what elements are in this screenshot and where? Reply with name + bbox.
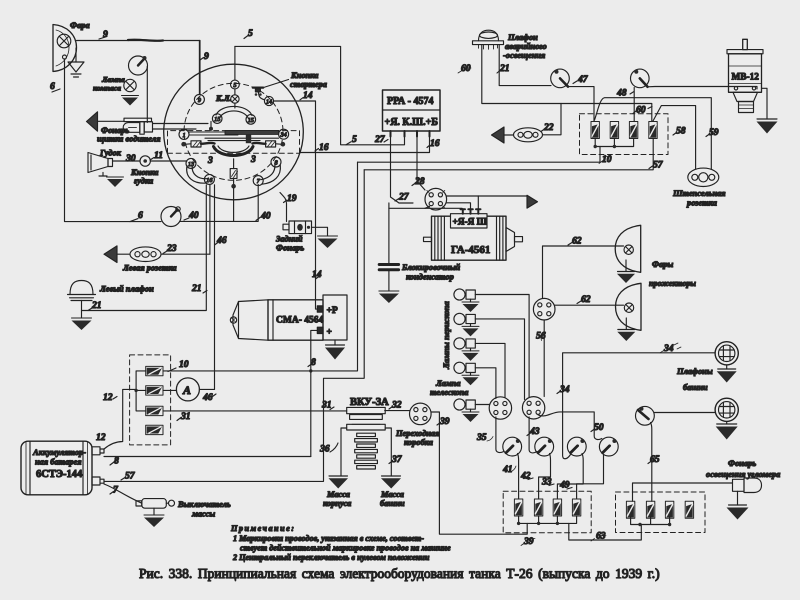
svg-text:9: 9 <box>198 97 201 104</box>
fuse box left (dashed) <box>130 355 171 445</box>
svg-text:Рис. 338. Принципиальная схема: Рис. 338. Принципиальная схема электрооб… <box>139 566 660 581</box>
svg-text:15: 15 <box>248 117 254 124</box>
lower-right arc segment <box>261 165 281 185</box>
compass lamp <box>124 79 136 91</box>
emergency dome lamp (Плафон аварийного освещения) <box>473 30 547 60</box>
svg-text:16: 16 <box>319 142 329 153</box>
socket 22 with arrow <box>492 104 562 144</box>
svg-text:12: 12 <box>96 432 106 443</box>
wire 57 battery minus <box>104 170 364 482</box>
svg-text:1 Маркировка проводов, указанн: 1 Маркировка проводов, указанная в схеме… <box>233 534 424 543</box>
svg-text:Переходная: Переходная <box>395 429 440 438</box>
central resistor and terminal <box>230 159 237 222</box>
svg-text:коробка: коробка <box>404 438 433 447</box>
left bus of fuse box <box>136 371 146 411</box>
svg-text:43: 43 <box>529 426 540 437</box>
wire 28 from RRA to connector top <box>412 137 425 191</box>
wire 63 box1 to box2 <box>569 523 642 541</box>
wire 35: connector A to toggle 1 <box>476 417 504 453</box>
ground of rear lamp <box>312 227 338 248</box>
svg-text:48: 48 <box>616 88 627 99</box>
plug socket (Штепсельная розетка) <box>672 168 726 207</box>
svg-text:46: 46 <box>202 392 213 403</box>
wire 21 from dome to toggle 47 <box>497 45 551 86</box>
wire 9 <box>77 29 210 94</box>
ground below dome 2 <box>716 422 738 440</box>
horn button (Кнопка гудка) <box>130 156 158 186</box>
central moving contact arc <box>214 146 254 156</box>
left socket (Левая розетка) <box>104 243 210 273</box>
long bus: fuse1-left to vertical riser <box>163 162 358 372</box>
wire from compass to driver panel lamp line <box>146 67 148 123</box>
svg-text:5: 5 <box>233 82 236 89</box>
svg-text:Гудок: Гудок <box>99 149 122 158</box>
svg-text:6СТЭ-144: 6СТЭ-144 <box>36 469 83 480</box>
wire 8 battery to starter <box>104 456 311 467</box>
svg-text:6: 6 <box>50 81 55 92</box>
svg-text:32: 32 <box>391 400 402 411</box>
svg-text:башни: башни <box>380 499 405 508</box>
fuse 4 <box>649 122 657 139</box>
svg-text:Штепсельная: Штепсельная <box>672 189 726 198</box>
fuse L2 <box>146 386 163 395</box>
lamp connector A <box>489 397 511 419</box>
right contact assembly <box>253 141 286 147</box>
svg-text:5: 5 <box>352 134 357 145</box>
svg-text:15: 15 <box>214 116 220 123</box>
svg-text:ГА-4561: ГА-4561 <box>451 244 490 256</box>
starter motor SMA-4564 <box>230 295 347 340</box>
svg-text:28: 28 <box>414 176 425 187</box>
switch bars <box>189 122 279 144</box>
svg-text:СМА- 4564: СМА- 4564 <box>276 316 323 326</box>
svg-text:стартера: стартера <box>290 80 327 89</box>
toggle switch 49 (T4) <box>559 437 618 499</box>
wire 32 VKU to junction box <box>385 400 410 411</box>
svg-text:+Я-Я Ш: +Я-Я Ш <box>453 218 488 228</box>
svg-text:37: 37 <box>391 454 403 465</box>
wire 36 to hull ground <box>319 428 347 476</box>
fuse L4 <box>146 425 163 434</box>
compass gauge (Лампа компаса) <box>93 56 148 93</box>
svg-text:аварийного: аварийного <box>505 42 547 51</box>
svg-text:21: 21 <box>191 283 202 294</box>
turret dome 1 (Плафоны башни) <box>676 342 738 392</box>
ground of starter <box>325 340 345 360</box>
svg-text:ная батарея: ная батарея <box>35 458 82 467</box>
svg-text:5: 5 <box>248 28 253 39</box>
svg-text:К.Л.: К.Л. <box>215 94 232 103</box>
junction box (Переходная коробка) <box>395 403 440 447</box>
svg-text:21: 21 <box>499 63 510 74</box>
fuse box top-right (dashed) <box>580 114 669 155</box>
svg-text:23: 23 <box>166 243 177 254</box>
wire to goniometer lamp <box>633 483 733 501</box>
svg-text:прожекторы: прожекторы <box>649 279 696 288</box>
terminal 8 <box>271 157 281 167</box>
hull ground (Масса корпуса) <box>323 476 351 508</box>
svg-text:Масса: Масса <box>326 490 350 499</box>
svg-text:46: 46 <box>216 235 227 246</box>
fuse B1-3 <box>553 499 561 516</box>
wire 58 from fuse 4 to socket <box>653 106 696 169</box>
svg-text:Выключатель: Выключатель <box>177 500 231 509</box>
wire from terminal 16 down <box>209 184 211 254</box>
ground below compass lamp <box>122 96 139 106</box>
svg-text:34: 34 <box>559 384 570 395</box>
svg-text:39: 39 <box>439 416 450 427</box>
svg-text:41: 41 <box>502 464 513 475</box>
terminal 13 <box>186 158 196 168</box>
svg-text:16: 16 <box>206 177 213 184</box>
lower-left arc segment <box>187 166 207 183</box>
telescope lamp (Лампа телескопа) <box>430 379 490 422</box>
wire 8 label near starter <box>308 357 316 368</box>
svg-text:22: 22 <box>543 122 554 133</box>
blocking capacitor (Блокировочный конденсатор) <box>379 203 461 303</box>
svg-text:35: 35 <box>476 432 487 443</box>
svg-text:2 Центральный переключатель в: 2 Центральный переключатель в нулевом по… <box>232 553 430 562</box>
svg-text:Фары: Фары <box>652 260 673 269</box>
svg-text:8: 8 <box>114 456 119 467</box>
wire 12 battery to fusebox <box>96 389 136 449</box>
svg-text:6: 6 <box>138 210 143 221</box>
left contact assembly <box>181 141 214 147</box>
svg-text:телескопа: телескопа <box>430 388 469 397</box>
terminal 15 right <box>246 115 256 125</box>
ground below goniometer lamp <box>727 491 749 519</box>
wires from panel lamp to ring <box>153 124 209 130</box>
terminal 16 <box>204 174 214 184</box>
driver panel lamp (Фонарь щитка водителя) <box>97 118 161 143</box>
wire 62 lower searchlight <box>555 294 624 305</box>
svg-text:башни: башни <box>683 383 708 392</box>
wires connector to generator and arrow <box>446 196 527 209</box>
wire 27 from RRA to generator connector <box>374 134 413 203</box>
svg-text:ВКУ-ЗА: ВКУ-ЗА <box>350 397 389 408</box>
fuse B1-2 <box>534 499 542 516</box>
generator GA-4561 <box>424 209 523 260</box>
svg-text:40: 40 <box>260 211 271 222</box>
svg-text:Примечание:: Примечание: <box>230 524 296 533</box>
svg-text:47: 47 <box>577 74 589 85</box>
lamp connector B <box>522 397 544 419</box>
svg-text:3: 3 <box>250 154 256 165</box>
wire 7 to ground switch <box>104 484 142 503</box>
svg-text:34: 34 <box>280 132 287 139</box>
ground below searchlight 1 <box>617 260 635 283</box>
svg-text:21: 21 <box>91 300 102 311</box>
wire 47 to fuse 1 <box>568 87 594 122</box>
fuse B2-1 <box>626 501 634 518</box>
svg-text:19: 19 <box>287 193 297 204</box>
svg-text:щитка водителя: щитка водителя <box>97 135 161 144</box>
gauge 40 <box>161 185 271 227</box>
svg-text:33: 33 <box>541 477 552 488</box>
svg-text:13: 13 <box>188 161 194 168</box>
ground below switch <box>144 508 164 527</box>
svg-text:57: 57 <box>125 471 136 482</box>
svg-text:10: 10 <box>179 359 189 370</box>
fuse 3 <box>629 122 637 139</box>
periscope lamp 1 <box>454 289 529 398</box>
svg-text:65: 65 <box>650 454 660 465</box>
fuse L1 <box>146 366 163 375</box>
svg-text:3: 3 <box>207 155 213 166</box>
wire 14 to starter relay <box>274 90 323 309</box>
svg-text:57: 57 <box>653 160 664 171</box>
svg-text:Левая розетка: Левая розетка <box>122 264 177 273</box>
svg-text:Фонарь: Фонарь <box>276 244 304 253</box>
electric motor MV-12 <box>727 39 763 112</box>
relay-regulator RRA-4574 <box>383 90 441 137</box>
svg-text:8: 8 <box>311 357 316 368</box>
arrow right <box>527 195 538 208</box>
svg-text:60: 60 <box>461 63 471 74</box>
wire 59 line from fuse1 to socket <box>595 98 719 169</box>
bus of box 1 <box>517 516 577 525</box>
arrow to driver panel lamp <box>87 112 125 131</box>
bus of box 2 <box>631 517 672 527</box>
starter button (Кнопка стартера) <box>253 71 327 100</box>
svg-text:+: + <box>327 328 332 338</box>
svg-text:10: 10 <box>602 154 612 165</box>
left dome lamp (Левый плафон) <box>68 281 155 311</box>
fuse B2-2 <box>646 501 654 518</box>
periscope lamp 2 <box>454 313 525 399</box>
svg-text:11: 11 <box>154 150 163 161</box>
svg-text:гудка: гудка <box>134 177 153 186</box>
svg-text:40: 40 <box>188 210 199 221</box>
horn (Гудок) <box>88 149 122 177</box>
svg-text:Плафон: Плафон <box>507 33 538 42</box>
wire connector bottom to capacitor <box>389 208 462 209</box>
svg-text:30: 30 <box>125 153 136 164</box>
svg-text:конденсатор: конденсатор <box>406 273 454 282</box>
wire 31 fuse L3 to VKU <box>163 400 347 423</box>
wire 16 from ring to RRA <box>300 137 440 154</box>
svg-text:50: 50 <box>594 422 604 433</box>
wire 46 vertical <box>215 185 227 390</box>
ground below dome 1 <box>717 365 737 383</box>
ground below left dome <box>72 311 92 331</box>
svg-text:27: 27 <box>398 192 410 203</box>
searchlight 2 <box>616 260 697 330</box>
periscope lamp 3 <box>454 338 505 398</box>
toggle switch 47 <box>551 69 589 88</box>
svg-text:освещения угломера: освещения угломера <box>706 470 780 479</box>
terminal 15 left <box>212 114 222 124</box>
wire 37 to turret ground <box>385 428 403 476</box>
toggle switch 33 (T3) <box>541 437 586 499</box>
svg-text:+Я. К.Ш.+Б: +Я. К.Ш.+Б <box>385 117 439 128</box>
headlight (Фара) <box>53 21 90 72</box>
toggle switch 48 <box>616 69 649 98</box>
svg-text:Задний: Задний <box>275 235 303 244</box>
svg-text:34: 34 <box>663 343 674 354</box>
svg-text:1: 1 <box>182 132 185 139</box>
svg-text:массы: массы <box>191 510 215 519</box>
wire 43: connector B to toggle 2 <box>527 417 540 453</box>
label 60 near fuse 4 <box>633 105 652 116</box>
fuse 1 <box>591 122 599 139</box>
wire 19 to rear lamp <box>280 193 297 222</box>
wire 6 (left frame) <box>50 59 161 222</box>
svg-text:63: 63 <box>596 531 606 542</box>
terminal 1 <box>179 129 189 139</box>
wire 5 top run <box>235 28 405 145</box>
terminal 7 <box>253 176 263 186</box>
wire 50: connector B to toggle 4 <box>538 412 604 440</box>
wire 56 connector C to B <box>536 320 546 397</box>
svg-text:58: 58 <box>676 126 686 137</box>
wire 60 from dome <box>458 45 652 122</box>
svg-text:60: 60 <box>636 105 646 116</box>
turret ground (Масса башни) <box>380 476 405 508</box>
svg-text:+Р: +Р <box>327 306 338 316</box>
svg-text:А: А <box>182 383 191 397</box>
fuse 2 <box>610 122 618 139</box>
svg-text:корпуса: корпуса <box>323 499 351 508</box>
svg-text:9: 9 <box>103 29 108 40</box>
upper arc segment <box>216 106 252 118</box>
svg-text:Фонарь: Фонарь <box>728 459 756 468</box>
toggle switch 41 (T1) <box>502 437 522 499</box>
searchlight 1 (Фары прожекторы) <box>615 225 641 272</box>
svg-text:9: 9 <box>204 51 209 62</box>
wire from toggle 48 to MV-12 <box>648 87 758 90</box>
rotating contact device VKU-3A <box>347 397 389 469</box>
svg-text:МВ-12: МВ-12 <box>732 73 760 83</box>
svg-text:Лампы перископа: Лампы перископа <box>441 300 451 370</box>
svg-text:31: 31 <box>180 411 191 422</box>
svg-text:14: 14 <box>266 98 272 105</box>
dashed rectangle around central switch <box>168 131 300 154</box>
svg-text:42: 42 <box>520 471 531 482</box>
svg-text:16: 16 <box>430 138 440 149</box>
generator connector (4-pin) <box>425 188 447 210</box>
ground below horn <box>107 177 124 187</box>
svg-text:Кнопка: Кнопка <box>290 71 318 80</box>
ground below headlight <box>68 48 84 77</box>
svg-text:розетка: розетка <box>686 199 717 208</box>
ground of MV-12 <box>757 88 778 133</box>
fuse B1-1 <box>514 499 522 516</box>
svg-text:-освещения: -освещения <box>503 51 546 60</box>
svg-text:39: 39 <box>523 536 534 547</box>
label 10 at fuse L1 <box>168 359 189 372</box>
fuse L3 <box>146 406 163 415</box>
rear lamp (Задний фонарь) <box>275 221 312 253</box>
fuse B2-3 <box>665 501 673 518</box>
svg-text:компаса: компаса <box>93 84 121 93</box>
svg-text:РРА - 4574: РРА - 4574 <box>387 96 434 107</box>
turret dome 2 <box>715 398 738 421</box>
K.L. lamp <box>215 89 239 108</box>
svg-text:14: 14 <box>303 90 313 101</box>
svg-text:36: 36 <box>319 444 330 455</box>
svg-text:Левый плафон: Левый плафон <box>99 285 154 294</box>
wire 62 upper searchlight <box>543 236 624 299</box>
wire 30 / 11 <box>113 150 188 164</box>
terminal 9 <box>194 41 204 105</box>
battery (6СТЭ-144) <box>21 441 104 495</box>
fuse box bottom 2 (dashed) <box>616 492 706 533</box>
wire 34 to turret domes <box>557 343 715 459</box>
svg-text:Плафоны: Плафоны <box>676 367 713 376</box>
ground below searchlight 2 <box>617 318 635 341</box>
fuse B2-4 <box>685 501 693 518</box>
svg-text:Фара: Фара <box>70 21 90 30</box>
wire starter plus to battery riser <box>311 330 318 456</box>
goniometer lamp (Фонарь освещения угломера) <box>706 459 780 493</box>
svg-text:59: 59 <box>709 127 719 138</box>
wire 21 from dome to ring <box>82 185 208 311</box>
toggle switch 42 (T2) <box>520 437 554 499</box>
toggle switch 65 (T5) <box>636 406 716 501</box>
distribution ring outer circle <box>164 64 304 200</box>
svg-text:62: 62 <box>572 236 582 247</box>
wire 48 to fuse 3 <box>633 88 635 122</box>
fuse box bottom 1 (dashed) <box>503 491 591 533</box>
terminal 34 <box>279 129 289 139</box>
inner dashed circle <box>184 83 283 180</box>
svg-text:27: 27 <box>374 134 386 145</box>
fuse B1-4 <box>572 499 580 516</box>
ammeter A <box>163 378 216 403</box>
notes (Примечание) <box>230 524 451 562</box>
svg-text:Блокировочный: Блокировочный <box>401 263 461 272</box>
terminal 14 <box>264 96 273 105</box>
lamp connector C <box>533 298 555 320</box>
svg-text:ствует действительной маркиров: ствует действительной маркировке проводо… <box>240 544 451 553</box>
terminal 5 <box>231 46 240 89</box>
svg-text:Аккумулятор-: Аккумулятор- <box>32 448 86 457</box>
svg-text:Лампа: Лампа <box>435 379 461 388</box>
svg-text:62: 62 <box>581 294 591 305</box>
svg-text:Масса: Масса <box>380 490 404 499</box>
wire 39 from junction box to bottom fuse panel <box>431 412 535 547</box>
ground switch (Выключатель массы) <box>136 499 231 519</box>
periscope lamp 4 <box>454 362 496 398</box>
fuse bottom bus wires 10 57 <box>358 139 664 171</box>
svg-text:12: 12 <box>103 392 113 403</box>
